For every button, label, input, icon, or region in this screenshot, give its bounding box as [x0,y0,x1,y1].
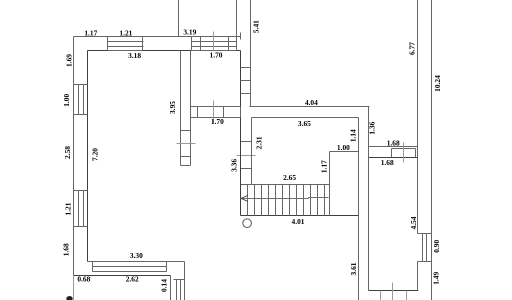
wall 3.65 room top [252,117,359,119]
window 1.00 left wall [74,85,88,115]
wall 1.36 / right room left [368,107,370,291]
band line 3.30 [88,261,185,263]
band line 2.62 [74,275,171,277]
svg-text:10.24: 10.24 [433,75,442,92]
center mark bottom b [392,283,394,300]
svg-text:3.61: 3.61 [349,262,358,275]
svg-text:1.68: 1.68 [381,158,394,167]
wall 2.31 [251,118,253,185]
wall 3.61 [358,118,360,300]
svg-text:1.17: 1.17 [84,28,97,37]
window 1.70 top center mark [213,32,215,52]
svg-text:0.14: 0.14 [160,279,169,292]
wall top a [178,0,180,37]
svg-text:3.36: 3.36 [229,159,238,172]
window 1.21 left wall [74,191,88,227]
window 0.90 bottom rung [418,261,432,263]
svg-text:1.68: 1.68 [387,139,400,148]
tick 2.31 [241,141,252,143]
wall right room top [369,157,418,159]
wall step c [180,280,182,300]
window 1.70 top [192,37,237,51]
wall 4.04 [250,106,370,108]
window 1.68 center mark [403,143,405,163]
wall 1.17 stair [329,152,331,216]
svg-text:1.70: 1.70 [211,117,224,126]
svg-text:3.19: 3.19 [183,28,196,37]
svg-text:1.49: 1.49 [431,272,440,285]
band connector left [92,262,94,272]
wall right outer lower [417,262,419,291]
svg-text:0.90: 0.90 [432,240,441,253]
svg-text:2.58: 2.58 [63,146,72,159]
band connector right [166,262,168,272]
svg-text:1.14: 1.14 [349,129,358,142]
stairs treads [248,185,325,216]
svg-text:3.18: 3.18 [128,51,141,60]
band line 2 [93,266,167,268]
window 1.68 [392,149,416,158]
svg-text:4.04: 4.04 [305,98,318,107]
window 0.90 mullions [423,234,427,262]
svg-text:1.00: 1.00 [62,94,71,107]
svg-text:1.21: 1.21 [64,202,73,215]
wall right outer upper [417,0,419,234]
wall step right [184,262,186,300]
center mark bottom a [380,291,382,300]
svg-text:1.69: 1.69 [65,54,74,67]
wall 3.95 [180,51,182,166]
wall far right 10.24 [431,0,433,300]
wall 3.36 [240,51,242,216]
window 1.21 top [108,37,144,51]
svg-text:1.68: 1.68 [61,243,70,256]
svg-text:1.70: 1.70 [210,50,223,59]
svg-text:6.77: 6.77 [407,42,416,55]
dim line 1.68 [369,146,418,148]
window in wall 3.95 [181,131,191,166]
partial label bottom left [66,296,72,300]
window 1.70 lower [191,107,241,118]
wall top dimension line [74,36,241,38]
stairs up arrow [241,195,329,201]
wall top inner [88,50,241,52]
extension line bottom left [73,276,75,300]
tick at x241 [240,33,242,40]
wall small room left [190,51,192,166]
center mark bottom c [406,291,408,300]
svg-text:0.68: 0.68 [77,275,90,284]
svg-text:4.01: 4.01 [292,217,305,226]
wall step b [176,280,178,300]
svg-text:5.41: 5.41 [251,20,260,33]
wall small room bottom [191,106,241,108]
svg-text:3.95: 3.95 [168,101,177,114]
svg-text:2.65: 2.65 [283,173,296,182]
svg-text:1.21: 1.21 [119,28,132,37]
wall top b [236,0,238,37]
band line 3 [93,271,167,273]
wall 1.00 landing [330,151,359,153]
svg-text:1.00: 1.00 [337,143,350,152]
svg-text:3.65: 3.65 [298,119,311,128]
stairs top wall [241,184,330,186]
wall step a [170,276,172,300]
wall outer left [73,37,75,276]
wall right room bottom [369,290,419,292]
window in wall 5.41 [241,68,251,94]
wall inner left 7.20 [87,51,89,262]
svg-text:2.62: 2.62 [126,275,139,284]
stairs bottom wall [241,215,359,217]
circle column marker [243,219,252,228]
wall 5.41 [250,0,252,107]
svg-text:1.17: 1.17 [320,160,329,173]
svg-text:2.31: 2.31 [255,136,264,149]
svg-text:4.54: 4.54 [409,216,418,229]
window 0.90 top rung [418,233,432,235]
svg-text:7.20: 7.20 [91,148,100,161]
tick 0.14 [174,279,185,281]
door center mark stair wall [237,155,256,157]
window lower 1.70 bottom line [191,117,241,119]
window 3.95 center mark [177,143,196,145]
door tick stair wall [241,168,252,170]
window 1.70 lower center mark [213,101,215,124]
svg-text:1.36: 1.36 [367,121,376,134]
svg-text:3.30: 3.30 [130,251,143,260]
